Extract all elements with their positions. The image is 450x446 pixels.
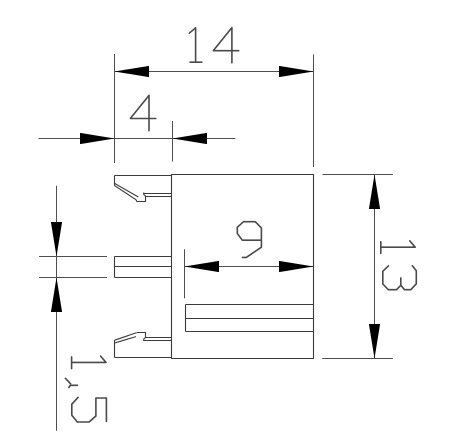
dim line 13: [374, 175, 376, 359]
arrow 13 top: [369, 175, 380, 210]
arrow 14 right: [279, 66, 314, 77]
slot band: [186, 305, 314, 332]
arrow 4 right (outside, points left): [173, 133, 208, 144]
bottom tab hook: [115, 333, 172, 358]
ext line bottom 1,5: [39, 277, 107, 279]
arrow 4 left (outside, points right): [80, 133, 115, 144]
arrow 9 right: [279, 261, 314, 272]
dim line 14: [115, 71, 314, 73]
ext line right 14: [313, 54, 315, 167]
label 1,5 (rotated): [65, 356, 106, 422]
top tab hook: [115, 176, 172, 202]
middle pin: [115, 257, 172, 278]
label 4: [131, 95, 156, 130]
connector body outline: [172, 175, 314, 359]
ext line left 9: [184, 249, 186, 298]
ext line top 13: [323, 174, 393, 176]
arrow 1,5 bottom (points up): [51, 278, 62, 313]
label 14: [189, 28, 238, 63]
label 9: [237, 222, 261, 258]
ext line bottom 13: [322, 358, 393, 360]
ext line left (14/4): [114, 54, 116, 163]
ext line top 1,5: [39, 256, 107, 258]
ext line right 4: [172, 121, 174, 162]
arrow 14 left: [115, 66, 150, 77]
dim line 9: [185, 266, 314, 268]
label 13 (rotated): [381, 241, 417, 290]
dim line 4: [39, 138, 236, 140]
dim line 1,5: [56, 186, 58, 431]
arrow 13 bottom: [369, 324, 380, 359]
arrow 1,5 top (points down): [51, 222, 62, 257]
arrow 9 left: [185, 261, 220, 272]
